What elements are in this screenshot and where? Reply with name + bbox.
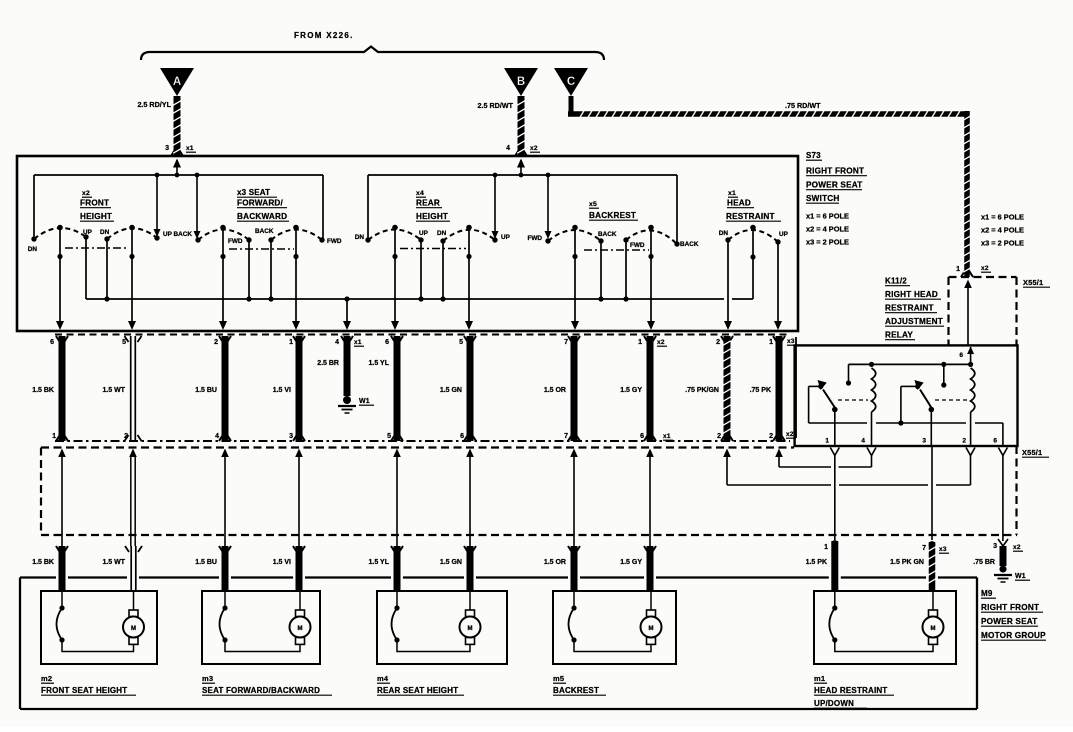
motor m2 box bbox=[41, 591, 157, 664]
svg-text:A: A bbox=[173, 76, 181, 88]
motor m2 motor feed wire bbox=[133, 591, 135, 610]
svg-text:M: M bbox=[131, 626, 136, 632]
svg-text:HEIGHT: HEIGHT bbox=[416, 212, 448, 221]
bus drop wire to pin 4 bbox=[343, 299, 351, 330]
svg-text:4: 4 bbox=[335, 339, 339, 346]
svg-text:1: 1 bbox=[825, 438, 829, 445]
s4 rocker arc 1 bbox=[368, 230, 421, 241]
motor m4 wire contact to motor bbox=[397, 640, 470, 652]
svg-text:UP: UP bbox=[83, 229, 93, 236]
relay coil 1 bbox=[872, 368, 876, 446]
svg-text:4: 4 bbox=[506, 145, 510, 152]
svg-text:REAR SEAT HEIGHT: REAR SEAT HEIGHT bbox=[377, 686, 458, 695]
feed drop to s2 DN contact bbox=[33, 175, 35, 237]
wire 1.5 OR harness bbox=[570, 449, 578, 547]
s3 FWD contact to bus bbox=[248, 240, 250, 299]
entry arrow A into switch bbox=[173, 159, 181, 176]
svg-text:FWD: FWD bbox=[630, 242, 645, 249]
svg-text:2: 2 bbox=[769, 433, 773, 440]
s5 rocker arc 2 bbox=[626, 230, 677, 244]
s2 rocker arc 2 bbox=[107, 228, 157, 239]
motor m5 motor bbox=[641, 610, 662, 644]
motor m2 motor bbox=[123, 610, 144, 644]
relay coil 2 bbox=[971, 368, 975, 446]
ground W1 symbol bbox=[338, 396, 356, 413]
svg-text:1: 1 bbox=[769, 339, 773, 346]
wire 1.5 VI upper bbox=[293, 336, 305, 441]
motor m2 wire contact to motor bbox=[62, 640, 134, 652]
svg-text:BACK: BACK bbox=[255, 228, 274, 235]
svg-text:6: 6 bbox=[385, 339, 389, 346]
svg-text:x3: x3 bbox=[939, 546, 947, 553]
svg-text:FWD: FWD bbox=[327, 238, 342, 245]
svg-text:x2: x2 bbox=[786, 431, 794, 438]
motor m5 box bbox=[553, 591, 676, 664]
motor m2 breaker contact bbox=[57, 591, 65, 643]
svg-text:x2: x2 bbox=[530, 145, 538, 152]
svg-text:FWD: FWD bbox=[527, 235, 542, 242]
svg-text:x2 = 4 POLE: x2 = 4 POLE bbox=[981, 226, 1024, 235]
s3 pivot wire to pin 2 bbox=[219, 228, 227, 331]
svg-text:S73: S73 bbox=[806, 151, 821, 160]
wire 1.5 BK upper bbox=[56, 336, 68, 441]
common bus wire in switch bbox=[86, 298, 753, 300]
svg-text:3: 3 bbox=[289, 433, 293, 440]
svg-text:FORWARD/: FORWARD/ bbox=[237, 199, 284, 208]
svg-text:2.5 RD/YL: 2.5 RD/YL bbox=[137, 100, 171, 109]
s4 rocker arc 2 bbox=[443, 230, 495, 241]
s5 pivot wire to pin 1 bbox=[647, 228, 655, 331]
svg-text:DN: DN bbox=[355, 234, 365, 241]
svg-text:.75 BR: .75 BR bbox=[973, 559, 995, 566]
wire 1.5 BK lower bbox=[56, 546, 68, 591]
svg-text:ADJUSTMENT: ADJUSTMENT bbox=[885, 317, 943, 326]
svg-text:DN: DN bbox=[719, 230, 729, 237]
svg-text:BACK: BACK bbox=[680, 241, 699, 248]
svg-text:x3 = 2 POLE: x3 = 2 POLE bbox=[806, 238, 849, 247]
wire .75 PK/GN upper bbox=[721, 336, 733, 441]
svg-text:M: M bbox=[468, 626, 473, 632]
relay contact 1 (movable arm) bbox=[809, 380, 838, 446]
svg-text:M: M bbox=[298, 626, 303, 632]
svg-text:x5: x5 bbox=[589, 201, 597, 208]
wire 1.5 YL upper bbox=[391, 336, 403, 441]
wire 1.5 GY harness bbox=[646, 449, 654, 547]
svg-text:6: 6 bbox=[959, 352, 963, 359]
svg-text:UP: UP bbox=[163, 231, 173, 238]
svg-text:1.5 WT: 1.5 WT bbox=[102, 559, 125, 566]
svg-text:UP: UP bbox=[501, 234, 511, 241]
wire 1.5 BU harness bbox=[221, 449, 229, 547]
svg-text:MOTOR GROUP: MOTOR GROUP bbox=[981, 631, 1046, 640]
svg-text:RELAY: RELAY bbox=[885, 331, 913, 340]
wire 1.5 GN harness bbox=[466, 449, 474, 547]
label s4 REAR HEIGHT bbox=[416, 190, 450, 221]
svg-text:x4: x4 bbox=[416, 190, 424, 197]
feed drop arrow to s5 FWD contact bbox=[545, 175, 552, 239]
s3 pivot wire to pin 1 bbox=[292, 228, 300, 331]
svg-text:1: 1 bbox=[638, 339, 642, 346]
wire 1.5 OR upper bbox=[568, 336, 580, 441]
svg-text:DN: DN bbox=[100, 229, 110, 236]
motor m3 motor bbox=[290, 610, 311, 644]
pole legend right bbox=[981, 213, 1024, 248]
relay contact 2 feed riser bbox=[901, 386, 916, 423]
svg-text:FRONT: FRONT bbox=[80, 199, 109, 208]
relay upper connector X55/1 dashed box bbox=[949, 277, 1017, 345]
label S73 RIGHT FRONT POWER SEAT SWITCH bbox=[806, 151, 867, 247]
motor m4 breaker contact bbox=[392, 591, 400, 643]
svg-text:M: M bbox=[649, 626, 654, 632]
motor m3 wire contact to motor bbox=[225, 640, 300, 652]
svg-text:RIGHT FRONT: RIGHT FRONT bbox=[981, 603, 1039, 612]
motor m5 motor feed wire bbox=[650, 591, 652, 610]
ground W1 symbol right bbox=[994, 565, 1012, 582]
label m1 HEAD RESTRAINT UP/DOWN bbox=[814, 674, 894, 708]
wire relay pin 4 jumper bbox=[839, 448, 877, 468]
svg-text:x2: x2 bbox=[981, 265, 989, 272]
svg-text:SEAT FORWARD/BACKWARD: SEAT FORWARD/BACKWARD bbox=[202, 686, 320, 695]
svg-text:3: 3 bbox=[165, 145, 169, 152]
svg-text:x2: x2 bbox=[82, 190, 90, 197]
feed bus segment 2 (s4-s5) bbox=[368, 174, 677, 176]
svg-text:1: 1 bbox=[289, 339, 293, 346]
svg-text:5: 5 bbox=[459, 339, 463, 346]
wire relay pin 3 to 1.5 PK GN bbox=[931, 446, 933, 540]
relay internal top wire bbox=[849, 363, 973, 365]
svg-text:3: 3 bbox=[993, 543, 997, 550]
svg-text:POWER SEAT: POWER SEAT bbox=[981, 617, 1037, 626]
relay contact 1 fixed terminal bbox=[846, 364, 851, 385]
svg-text:.75 PK: .75 PK bbox=[750, 387, 771, 394]
svg-text:BACKREST: BACKREST bbox=[553, 686, 599, 695]
wire 1.5 BU lower bbox=[219, 546, 231, 591]
wire 1.5 BK harness bbox=[58, 449, 66, 547]
svg-text:x1: x1 bbox=[354, 339, 362, 346]
svg-text:FROM X226.: FROM X226. bbox=[294, 31, 354, 40]
connector C (triangle) bbox=[554, 68, 588, 96]
motor m4 motor bbox=[460, 610, 481, 644]
svg-text:1.5 PK: 1.5 PK bbox=[806, 559, 827, 566]
s4 pivot wire to pin 5 bbox=[465, 228, 473, 331]
label m2 FRONT SEAT HEIGHT bbox=[41, 674, 136, 695]
relay pin 6 top stub bbox=[967, 347, 974, 365]
svg-text:FWD: FWD bbox=[228, 238, 243, 245]
label s1 HEAD RESTRAINT bbox=[726, 190, 781, 221]
brace from X226 bbox=[141, 47, 604, 61]
wire relay pin 6 to .75 BR ground bbox=[998, 448, 1007, 542]
svg-text:1.5 BU: 1.5 BU bbox=[195, 387, 217, 394]
svg-text:1.5 BU: 1.5 BU bbox=[195, 559, 217, 566]
junction dots on feed bus bbox=[155, 173, 551, 178]
wire 1.5 GN upper bbox=[464, 336, 476, 441]
s4 UP contact to bus bbox=[420, 240, 422, 299]
s2 UP contact to bus bbox=[85, 237, 87, 299]
s3 rocker arc 1 bbox=[198, 230, 249, 241]
s3 mechanical link bar bbox=[229, 248, 294, 250]
pivot dots of rockers bbox=[57, 225, 756, 231]
svg-text:UP: UP bbox=[419, 230, 429, 237]
connector B (triangle) bbox=[504, 68, 538, 96]
svg-text:3: 3 bbox=[922, 438, 926, 445]
svg-text:6: 6 bbox=[993, 438, 997, 445]
svg-text:m3: m3 bbox=[202, 674, 213, 683]
wire 1.5 YL lower bbox=[391, 546, 403, 591]
wire .75 BR to ground W1 bbox=[998, 539, 1008, 566]
svg-text:x1: x1 bbox=[663, 433, 671, 440]
relay contact 2 fixed terminal bbox=[941, 364, 946, 387]
wire .75 PK to relay pin 1 (jumper) bbox=[775, 449, 831, 468]
s1 rocker arc bbox=[728, 230, 778, 242]
s2 mechanical link bar bbox=[65, 247, 128, 249]
svg-text:BACKWARD: BACKWARD bbox=[237, 212, 287, 221]
s3 BACK contact to bus bbox=[270, 240, 272, 299]
relay ground return wire to pin 6 bbox=[1002, 423, 1004, 446]
motor m3 box bbox=[202, 591, 320, 664]
svg-text:X55/1: X55/1 bbox=[1022, 448, 1042, 457]
s2 DN contact to bus bbox=[106, 239, 108, 299]
wire 1.5 GN lower bbox=[464, 546, 476, 591]
svg-text:.75 RD/WT: .75 RD/WT bbox=[785, 101, 821, 110]
s2 rocker arc 1 bbox=[34, 228, 86, 239]
motor m1 wire contact to motor bbox=[835, 640, 933, 652]
svg-text:RESTRAINT: RESTRAINT bbox=[726, 212, 775, 221]
svg-text:DN: DN bbox=[437, 230, 447, 237]
svg-text:2.5 RD/WT: 2.5 RD/WT bbox=[477, 101, 513, 110]
wire 1.5 YL harness bbox=[393, 449, 401, 547]
relay contact 2 (movable arm) bbox=[914, 380, 934, 446]
wire 2.5 RD/YL from connector A bbox=[171, 96, 183, 156]
svg-text:1.5 VI: 1.5 VI bbox=[273, 559, 291, 566]
motor m5 breaker contact bbox=[569, 591, 577, 643]
svg-text:FRONT SEAT HEIGHT: FRONT SEAT HEIGHT bbox=[41, 686, 127, 695]
svg-text:m1: m1 bbox=[814, 674, 825, 683]
svg-text:m2: m2 bbox=[41, 674, 52, 683]
svg-text:x3: x3 bbox=[787, 338, 795, 345]
svg-text:x2 = 4 POLE: x2 = 4 POLE bbox=[806, 225, 849, 234]
wire 1.5 VI harness bbox=[295, 449, 303, 547]
s5 rocker arc 1 bbox=[548, 230, 601, 241]
svg-text:x1 = 6 POLE: x1 = 6 POLE bbox=[806, 212, 849, 221]
label s3 SEAT FORWARD/BACKWARD bbox=[237, 188, 289, 221]
feed bus segment 1 (s2-s3) bbox=[34, 174, 323, 176]
s2 pivot wire to pin 6 bbox=[56, 228, 64, 331]
motor m3 motor feed wire bbox=[299, 591, 301, 610]
svg-text:x2: x2 bbox=[1013, 544, 1021, 551]
svg-text:2: 2 bbox=[717, 433, 721, 440]
feed drop to s4 DN contact bbox=[367, 175, 369, 238]
feed drop arrow to s2 UP contact bbox=[154, 175, 161, 237]
svg-text:4: 4 bbox=[861, 438, 865, 445]
svg-text:x1: x1 bbox=[186, 145, 194, 152]
motor m4 motor feed wire bbox=[469, 591, 471, 610]
svg-text:x3 = 2 POLE: x3 = 2 POLE bbox=[981, 239, 1024, 248]
label s2 FRONT HEIGHT bbox=[80, 190, 114, 221]
svg-text:BACK: BACK bbox=[598, 231, 617, 238]
label m5 BACKREST bbox=[553, 674, 606, 695]
svg-text:x1: x1 bbox=[728, 190, 736, 197]
svg-text:2: 2 bbox=[716, 339, 720, 346]
relay contact 1 rest position dashed bbox=[838, 399, 868, 401]
svg-text:.75 PK/GN: .75 PK/GN bbox=[685, 387, 719, 394]
svg-text:REAR: REAR bbox=[416, 199, 440, 208]
s5 pivot wire to pin 7 bbox=[571, 228, 579, 331]
svg-text:W1: W1 bbox=[1015, 573, 1026, 580]
wire 1.5 GY lower bbox=[644, 546, 656, 591]
motor m4 box bbox=[377, 591, 507, 664]
connector X55/1 dashed box bbox=[41, 446, 1017, 535]
wire 1.5 BU upper bbox=[219, 336, 231, 441]
svg-text:1.5 GN: 1.5 GN bbox=[440, 559, 462, 566]
svg-text:1.5 VI: 1.5 VI bbox=[273, 387, 291, 394]
svg-text:C: C bbox=[567, 76, 575, 88]
svg-text:x1 = 6 POLE: x1 = 6 POLE bbox=[981, 213, 1024, 222]
motor m1 motor bbox=[923, 610, 944, 644]
svg-text:6: 6 bbox=[640, 433, 644, 440]
label M9 RIGHT FRONT POWER SEAT MOTOR GROUP bbox=[981, 589, 1046, 640]
s1 DN contact wire to pin 2 bbox=[724, 240, 732, 330]
svg-text:1.5 OR: 1.5 OR bbox=[544, 387, 566, 394]
svg-text:BACKREST: BACKREST bbox=[589, 211, 636, 220]
wire 2.5 RD/WT from connector B bbox=[515, 96, 527, 156]
svg-text:HEAD RESTRAINT: HEAD RESTRAINT bbox=[814, 686, 887, 695]
svg-text:x3 SEAT: x3 SEAT bbox=[237, 188, 270, 197]
s4 mechanical link bar bbox=[400, 248, 466, 250]
wire relay pin 6 to connector pin 1 bbox=[964, 280, 972, 346]
label m4 REAR SEAT HEIGHT bbox=[377, 674, 464, 695]
svg-text:BACK: BACK bbox=[174, 231, 193, 238]
svg-text:7: 7 bbox=[564, 339, 568, 346]
svg-text:2: 2 bbox=[962, 438, 966, 445]
label K11/2 RIGHT HEAD RESTRAINT ADJUSTMENT RELAY bbox=[885, 277, 944, 340]
svg-text:B: B bbox=[517, 76, 525, 88]
svg-text:x2: x2 bbox=[657, 339, 665, 346]
svg-text:DN: DN bbox=[28, 246, 38, 253]
svg-text:1.5 WT: 1.5 WT bbox=[102, 387, 125, 394]
feed drop to s3 FWD contact bbox=[322, 175, 324, 238]
feed drop to s5 BACK contact bbox=[676, 175, 678, 242]
svg-text:X55/1: X55/1 bbox=[1023, 278, 1043, 287]
relay pivot feed wire bbox=[809, 386, 1003, 425]
relay K11/2 box bbox=[795, 345, 1018, 446]
wire 1.5 PK GN bbox=[928, 541, 936, 591]
svg-text:1.5 GN: 1.5 GN bbox=[440, 387, 462, 394]
svg-text:1.5 GY: 1.5 GY bbox=[620, 387, 642, 394]
motor m5 wire contact to motor bbox=[574, 640, 651, 652]
svg-text:1: 1 bbox=[824, 544, 828, 551]
svg-text:1.5 BK: 1.5 BK bbox=[32, 559, 54, 566]
svg-text:2.5 BR: 2.5 BR bbox=[317, 360, 339, 367]
motor group M9 box outline bbox=[20, 578, 977, 710]
svg-text:1.5 BK: 1.5 BK bbox=[32, 387, 54, 394]
svg-text:M9: M9 bbox=[981, 589, 993, 598]
motor m1 motor feed wire bbox=[932, 591, 934, 610]
svg-text:1: 1 bbox=[52, 433, 56, 440]
svg-text:K11/2: K11/2 bbox=[885, 277, 907, 286]
feed drop arrow to s4 UP contact bbox=[492, 175, 499, 239]
s5 FWD contact to bus bbox=[625, 240, 627, 299]
s1 UP contact wire to pin 1 bbox=[774, 242, 782, 330]
svg-text:RIGHT HEAD: RIGHT HEAD bbox=[885, 290, 938, 299]
svg-text:W1: W1 bbox=[359, 398, 370, 405]
svg-text:1.5 YL: 1.5 YL bbox=[369, 360, 390, 367]
label s5 BACKREST bbox=[589, 201, 638, 220]
wire 1.5 PK bbox=[831, 540, 838, 591]
svg-text:m5: m5 bbox=[553, 674, 564, 683]
relay top wire junction dots bbox=[869, 362, 973, 367]
S73 connector face upper dashed line bbox=[55, 334, 790, 336]
svg-text:4: 4 bbox=[215, 433, 219, 440]
svg-text:6: 6 bbox=[50, 339, 54, 346]
svg-text:1.5 PK GN: 1.5 PK GN bbox=[890, 559, 924, 566]
contact dots of rockers bbox=[31, 234, 780, 246]
svg-text:m4: m4 bbox=[377, 674, 389, 683]
S73 connector right bracket bbox=[795, 337, 797, 438]
svg-text:UP/DOWN: UP/DOWN bbox=[814, 699, 854, 708]
svg-text:M: M bbox=[931, 626, 936, 632]
s1 pivot wire to common bus bbox=[750, 228, 755, 300]
svg-text:RESTRAINT: RESTRAINT bbox=[885, 304, 934, 313]
svg-text:1.5 GY: 1.5 GY bbox=[620, 559, 642, 566]
svg-text:5: 5 bbox=[122, 339, 126, 346]
svg-text:1: 1 bbox=[956, 266, 960, 273]
s5 BACK contact to bus bbox=[600, 241, 602, 299]
wire 1.5 GY upper bbox=[644, 336, 656, 441]
s5 mechanical link bar bbox=[584, 249, 649, 251]
wire 1.5 VI lower bbox=[293, 546, 305, 591]
motor m3 breaker contact bbox=[220, 591, 228, 643]
motor m1 breaker contact bbox=[829, 591, 837, 643]
svg-text:7: 7 bbox=[922, 545, 926, 552]
wire .75 PK/GN to relay pin 2 bbox=[723, 448, 975, 486]
S73 switch box outline bbox=[17, 156, 798, 331]
wire 1.5 WT lower (hollow) bbox=[125, 546, 142, 591]
s2 pivot wire to pin 5 bbox=[128, 228, 136, 331]
svg-text:2: 2 bbox=[214, 339, 218, 346]
svg-text:RIGHT FRONT: RIGHT FRONT bbox=[806, 167, 864, 176]
wire 1.5 WT upper (hollow) bbox=[125, 336, 142, 441]
svg-text:6: 6 bbox=[460, 433, 464, 440]
feed drop arrow to s3 BACK contact bbox=[194, 175, 201, 239]
svg-text:SWITCH: SWITCH bbox=[806, 194, 840, 203]
wire .75 RD/WT from connector C to relay connector bbox=[568, 96, 973, 277]
svg-text:1.5 YL: 1.5 YL bbox=[369, 559, 390, 566]
wire 1.5 OR lower bbox=[568, 546, 580, 591]
svg-text:POWER SEAT: POWER SEAT bbox=[806, 181, 862, 190]
svg-text:7: 7 bbox=[564, 433, 568, 440]
s4 pivot wire to pin 6 bbox=[391, 228, 399, 331]
wire 1.5 WT harness (hollow) bbox=[129, 449, 137, 547]
S73 connector face lower dashed line bbox=[55, 440, 790, 442]
entry arrow B into switch bbox=[517, 159, 525, 176]
wire 2.5 BR to ground W1 bbox=[341, 336, 353, 396]
relay contact 2 rest position dashed bbox=[935, 399, 968, 401]
connector A (triangle) bbox=[160, 68, 194, 96]
s4 DN contact to bus bbox=[442, 241, 444, 299]
bus junction dots bbox=[104, 296, 628, 301]
wire relay pin 1 to 1.5 PK bbox=[830, 448, 839, 541]
svg-text:UP: UP bbox=[779, 231, 789, 238]
s3 rocker arc 2 bbox=[271, 230, 322, 241]
svg-text:HEAD: HEAD bbox=[727, 199, 751, 208]
svg-text:5: 5 bbox=[387, 433, 391, 440]
label m3 SEAT FORWARD/BACKWARD bbox=[202, 674, 332, 695]
wire .75 PK upper bbox=[773, 336, 785, 441]
svg-text:1.5 OR: 1.5 OR bbox=[544, 559, 566, 566]
motor m1 box bbox=[814, 591, 956, 664]
svg-text:HEIGHT: HEIGHT bbox=[80, 212, 112, 221]
